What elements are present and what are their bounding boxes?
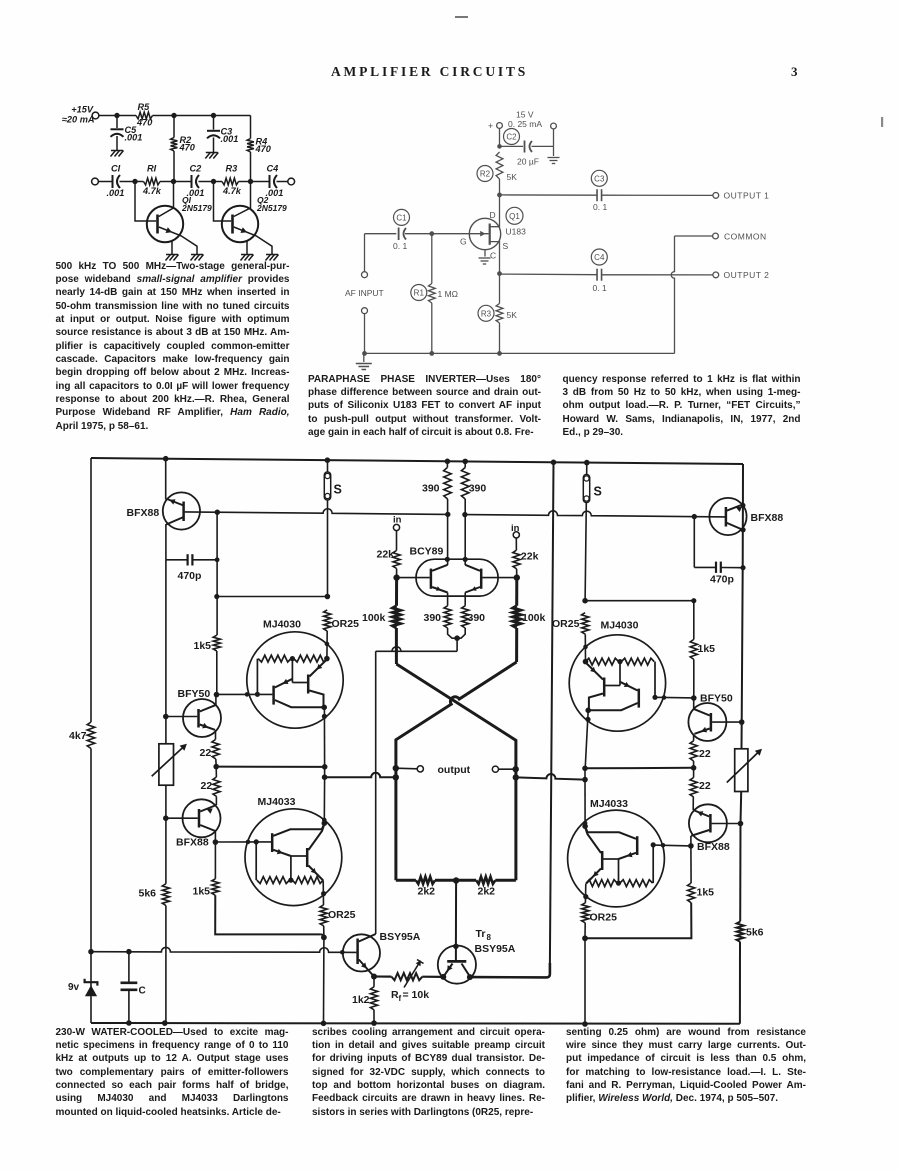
wire BFY50-right collector/emitter column bbox=[693, 698, 695, 741]
svg-text:Q1: Q1 bbox=[509, 212, 520, 221]
wire output-left feed row bbox=[325, 773, 396, 777]
svg-text:20 µF: 20 µF bbox=[517, 157, 539, 167]
resistor 22k right bbox=[513, 550, 539, 577]
darlington MJ4030 upper-left bbox=[247, 619, 343, 729]
ground under C5 bbox=[111, 151, 124, 157]
wire BFY50-right base lead bbox=[712, 719, 744, 725]
JFET Q1 U183 bbox=[432, 195, 526, 274]
svg-text:0. 1: 0. 1 bbox=[593, 202, 607, 212]
svg-text:22k: 22k bbox=[377, 549, 395, 561]
resistor 1k2 bbox=[352, 977, 378, 1024]
resistor 5k6 left bbox=[139, 884, 170, 906]
svg-text:in: in bbox=[511, 523, 520, 534]
capacitor C1 .001 bbox=[98, 164, 135, 199]
wire 22-junction row left bbox=[216, 766, 325, 768]
svg-text:f: f bbox=[399, 994, 402, 1003]
diode 9V zener bbox=[68, 979, 97, 997]
svg-text:9v: 9v bbox=[68, 982, 80, 993]
darlington MJ4030 upper-right bbox=[569, 620, 665, 732]
svg-text:2N5179: 2N5179 bbox=[256, 203, 287, 213]
fuse S left bbox=[324, 460, 342, 596]
wire feedback diagonal left-to-right (heavy) bbox=[396, 664, 519, 880]
wire right outer column bbox=[740, 464, 743, 1024]
svg-text:4k7: 4k7 bbox=[69, 730, 87, 742]
svg-text:22: 22 bbox=[699, 780, 711, 792]
wire MJ4033-right base lead bbox=[653, 843, 691, 848]
rheostat right bbox=[727, 749, 762, 792]
wire MJ4033-left base lead bbox=[215, 840, 272, 845]
wire 1k5-LR to 0R25 column bbox=[582, 903, 691, 941]
svg-text:COMMON: COMMON bbox=[724, 231, 767, 241]
ground under Q2 emitter bbox=[241, 255, 254, 261]
svg-text:4.7k: 4.7k bbox=[222, 186, 242, 196]
svg-text:5K: 5K bbox=[507, 310, 518, 320]
wire BFY50-left base lead bbox=[163, 714, 197, 720]
capacitor C filter bbox=[121, 952, 146, 1023]
wire 0R25-LL continues to bottom bus bbox=[323, 937, 325, 1023]
resistor 1k5 lower-left bbox=[193, 879, 220, 898]
node MJ4033-right base junction bbox=[688, 843, 694, 849]
svg-text:BCY89: BCY89 bbox=[410, 546, 444, 558]
transistor BFX88 lower-right bbox=[689, 797, 730, 853]
transistor BFX88 upper-left bbox=[127, 492, 200, 529]
resistor 22k left bbox=[377, 549, 401, 578]
svg-text:BFX88: BFX88 bbox=[127, 507, 160, 519]
wire feedback diagonal right-to-left (heavy) with hop bbox=[393, 662, 517, 880]
node right 22 junction bbox=[691, 765, 697, 771]
transistor Tr8 BSY95A bbox=[438, 928, 516, 984]
wire BFX88-LR base lead bbox=[712, 821, 744, 827]
svg-text:S: S bbox=[334, 483, 342, 497]
resistor 100k left (heavy) bbox=[362, 578, 400, 664]
resistor 0R25 upper-right bbox=[552, 598, 589, 664]
ground under C3 bbox=[205, 153, 218, 159]
svg-text:C4: C4 bbox=[594, 253, 605, 262]
svg-text:1k5: 1k5 bbox=[193, 886, 211, 898]
svg-text:R5: R5 bbox=[138, 102, 151, 112]
wire top supply rail bbox=[99, 113, 251, 118]
resistor 22 left upper bbox=[200, 740, 220, 767]
svg-text:.001: .001 bbox=[221, 134, 239, 144]
svg-text:MJ4033: MJ4033 bbox=[258, 796, 296, 808]
capacitor C2 20uF bbox=[500, 129, 554, 167]
svg-text:BFX88: BFX88 bbox=[697, 841, 730, 853]
svg-text:5K: 5K bbox=[507, 172, 518, 182]
svg-text:R1: R1 bbox=[414, 289, 425, 298]
svg-text:OR25: OR25 bbox=[590, 912, 618, 924]
capacitor C5 .001 bbox=[111, 116, 143, 151]
svg-text:.001: .001 bbox=[125, 133, 143, 143]
capacitor C1 0.1 bbox=[365, 209, 432, 250]
resistor 390 upper-left pair bbox=[422, 461, 451, 565]
svg-text:OR25: OR25 bbox=[552, 618, 580, 630]
wire Tr8 base column bbox=[453, 881, 459, 950]
svg-text:2N5179: 2N5179 bbox=[181, 203, 212, 213]
svg-text:+: + bbox=[488, 121, 493, 131]
wire left base rail segment bbox=[185, 509, 451, 517]
transistor BSY95A left bbox=[343, 931, 421, 977]
transistor BFY50 right bbox=[688, 693, 732, 742]
svg-text:4.7k: 4.7k bbox=[142, 186, 162, 196]
wire BSY95A base row bbox=[88, 947, 356, 954]
svg-text:OUTPUT 2: OUTPUT 2 bbox=[724, 270, 770, 280]
schematic 1: 500 kHz - 500 MHz two-stage wideband amplifier bbox=[881, 117, 883, 127]
transistor BFY50 left bbox=[178, 688, 222, 737]
node 15V supply terminals bbox=[488, 110, 556, 132]
svg-text:1k5: 1k5 bbox=[698, 643, 716, 655]
resistor 22 right lower bbox=[690, 768, 711, 797]
capacitor 470p right bbox=[694, 517, 745, 586]
resistor 22 right upper bbox=[690, 741, 711, 768]
svg-text:OUTPUT 1: OUTPUT 1 bbox=[724, 191, 770, 201]
transistor Q2 2N5179 bbox=[214, 182, 288, 255]
wire inner-right lower column to 1k5 bbox=[690, 846, 692, 883]
node MJ4033-left base junction bbox=[213, 839, 219, 845]
svg-text:1 MΩ: 1 MΩ bbox=[438, 289, 459, 299]
resistor 0R25 upper-left bbox=[324, 610, 359, 661]
svg-text:R3: R3 bbox=[481, 310, 492, 319]
capacitor C3 0.1 to output 1 bbox=[500, 170, 713, 212]
wire 0R25-LR continues to bottom bus bbox=[584, 938, 586, 1025]
wire supply drop bbox=[497, 128, 502, 148]
svg-text:22k: 22k bbox=[521, 551, 539, 563]
resistor 2k2 row (heavy) bbox=[396, 877, 516, 898]
node input terminal bbox=[92, 178, 99, 185]
node AF INPUT terminals bbox=[345, 234, 384, 354]
wire BCY89 tail column bbox=[375, 651, 377, 934]
svg-text:390: 390 bbox=[424, 612, 442, 624]
svg-text:390: 390 bbox=[422, 483, 440, 495]
svg-text:470: 470 bbox=[255, 144, 272, 154]
resistor R1 1 Mohm bbox=[411, 234, 458, 354]
wire MJ4030-left base lead bbox=[217, 692, 273, 697]
resistor R3 4.7k bbox=[211, 164, 251, 197]
svg-text:15 V: 15 V bbox=[516, 110, 534, 120]
fuse S right bbox=[583, 463, 602, 601]
svg-text:C1: C1 bbox=[396, 214, 407, 223]
capacitor C2 .001 bbox=[171, 164, 214, 199]
wire MJ4030-right top tie bbox=[585, 598, 696, 603]
resistor 390 lower-left of BCY89 bbox=[424, 606, 458, 638]
svg-text:U183: U183 bbox=[506, 227, 527, 237]
svg-text:C2: C2 bbox=[506, 133, 517, 142]
dual transistor BCY89 bbox=[397, 546, 517, 606]
capacitor 470p left bbox=[166, 554, 220, 582]
resistor 390 upper-right pair bbox=[461, 461, 486, 565]
wire right output column bbox=[582, 710, 588, 823]
ground under C2 bbox=[548, 158, 560, 164]
svg-text:CI: CI bbox=[111, 164, 121, 174]
wire long bias column to top bus bbox=[550, 462, 554, 963]
wire 22-junction row right bbox=[582, 766, 693, 772]
svg-text:BFY50: BFY50 bbox=[700, 693, 733, 705]
darlington MJ4033 lower-left bbox=[245, 796, 342, 906]
svg-text:MJ4030: MJ4030 bbox=[263, 619, 301, 631]
node COMMON terminal bbox=[671, 231, 766, 353]
svg-text:1k5: 1k5 bbox=[697, 887, 715, 899]
node B right input node bbox=[514, 574, 520, 580]
svg-text:OR25: OR25 bbox=[328, 909, 356, 921]
ground under Q2 shield bbox=[266, 255, 279, 261]
resistor R4 470 bbox=[247, 116, 272, 182]
node output terminals bbox=[396, 764, 516, 776]
svg-text:390: 390 bbox=[469, 483, 487, 495]
svg-text:G: G bbox=[460, 237, 467, 247]
wire BFY50-left collector/emitter column bbox=[215, 695, 217, 740]
svg-text:= 10k: = 10k bbox=[403, 989, 430, 1001]
rheostat Rf 10k bbox=[374, 960, 442, 1004]
svg-text:output: output bbox=[438, 764, 471, 776]
ground under Q1 shield bbox=[191, 255, 204, 261]
svg-text:Tr: Tr bbox=[476, 928, 486, 940]
resistor R1 4.7k bbox=[132, 164, 173, 197]
svg-text:22: 22 bbox=[201, 780, 213, 792]
svg-text:5k6: 5k6 bbox=[139, 888, 157, 900]
wire right base rail segment bbox=[462, 511, 725, 519]
svg-text:1k5: 1k5 bbox=[194, 640, 212, 652]
svg-text:MJ4030: MJ4030 bbox=[601, 620, 639, 632]
svg-text:S: S bbox=[594, 485, 602, 499]
svg-text:5k6: 5k6 bbox=[746, 927, 764, 939]
svg-text:C2: C2 bbox=[190, 164, 203, 174]
resistor R5 470 bbox=[136, 102, 153, 128]
node left 22 junction bbox=[213, 764, 219, 770]
node in terminal left bbox=[393, 515, 402, 551]
svg-text:in: in bbox=[393, 515, 402, 526]
node bias row junction bbox=[371, 974, 377, 980]
wire inner-left column bbox=[214, 512, 220, 697]
svg-text:AF INPUT: AF INPUT bbox=[345, 288, 384, 298]
svg-text:390: 390 bbox=[468, 612, 486, 624]
svg-text:22: 22 bbox=[200, 747, 212, 759]
svg-text:1k2: 1k2 bbox=[352, 994, 370, 1006]
ground at FET case bbox=[479, 258, 491, 264]
wire left output column bbox=[322, 707, 328, 823]
wire BFX88-LL base lead bbox=[166, 817, 198, 819]
svg-text:100k: 100k bbox=[362, 612, 386, 624]
resistor 0R25 lower-left bbox=[320, 881, 356, 938]
svg-text:8: 8 bbox=[487, 933, 492, 942]
wire top supply bus bbox=[91, 456, 743, 466]
wire MJ4030-left top tie bbox=[217, 594, 330, 600]
svg-text:2k2: 2k2 bbox=[418, 886, 436, 898]
svg-text:470p: 470p bbox=[178, 570, 202, 582]
resistor 22 left lower bbox=[201, 767, 221, 797]
wire 1k5-LL to 0R25 column bbox=[215, 895, 327, 940]
svg-text:470: 470 bbox=[136, 118, 153, 128]
svg-text:RI: RI bbox=[147, 164, 157, 174]
rheostat left bbox=[152, 744, 187, 786]
ground under Q1 emitter bbox=[166, 255, 179, 261]
svg-text:C: C bbox=[490, 251, 496, 261]
node drain junction bbox=[497, 193, 502, 198]
resistor R3 5K bbox=[478, 274, 517, 354]
svg-text:470: 470 bbox=[179, 143, 196, 153]
svg-text:BFX88: BFX88 bbox=[176, 837, 209, 849]
wire MJ4030-right base lead bbox=[655, 695, 697, 701]
darlington MJ4033 lower-right bbox=[568, 798, 665, 907]
transistor Q1 2N5179 bbox=[135, 182, 212, 255]
svg-text:0. 1: 0. 1 bbox=[393, 241, 407, 251]
node source junction bbox=[497, 271, 502, 276]
svg-text:S: S bbox=[503, 241, 509, 251]
resistor 4k7 bbox=[69, 722, 95, 749]
svg-text:2k2: 2k2 bbox=[478, 886, 496, 898]
svg-text:≈20 mA: ≈20 mA bbox=[62, 115, 95, 125]
wire bottom common rail bbox=[362, 351, 674, 362]
svg-text:MJ4033: MJ4033 bbox=[590, 798, 628, 810]
capacitor C4 0.1 to output 2 bbox=[500, 249, 713, 293]
resistor 1k5 upper-right bbox=[690, 601, 715, 698]
svg-text:C4: C4 bbox=[267, 164, 279, 174]
wire left outer column with 4k7 and 9V zener bbox=[90, 458, 92, 1023]
resistor R2 470 bbox=[171, 116, 196, 182]
transistor BFX88 lower-left bbox=[176, 797, 221, 849]
node +15V supply terminal bbox=[62, 105, 99, 125]
resistor R2 5K bbox=[477, 152, 517, 195]
node output terminal bbox=[288, 178, 295, 185]
node gate junction bbox=[429, 231, 434, 236]
transistor BFX88 upper-right bbox=[709, 498, 783, 535]
svg-text:0. 25 mA: 0. 25 mA bbox=[508, 119, 542, 129]
svg-text:100k: 100k bbox=[522, 612, 546, 624]
svg-text:R2: R2 bbox=[480, 170, 491, 179]
svg-text:C3: C3 bbox=[594, 175, 605, 184]
wire bottom supply bus bbox=[91, 1020, 740, 1027]
wire inner-left lower column to 1k5 bbox=[214, 842, 216, 879]
svg-text:BSY95A: BSY95A bbox=[380, 931, 421, 943]
resistor 100k right (heavy) bbox=[513, 578, 546, 662]
wire Tr8 collector to bias vertical (heavy) bbox=[470, 963, 550, 977]
svg-text:.001: .001 bbox=[107, 188, 125, 198]
svg-text:BFX88: BFX88 bbox=[751, 512, 784, 524]
wire BFX88-UL emitter to bus / collector down bbox=[165, 459, 167, 560]
capacitor C3 .001 bbox=[207, 116, 238, 153]
svg-text:22: 22 bbox=[699, 748, 711, 760]
capacitor C4 .001 bbox=[248, 164, 288, 199]
node A left input node bbox=[393, 574, 399, 580]
node OUTPUT 1 terminal bbox=[713, 191, 769, 201]
resistor 1k5 upper-left bbox=[194, 635, 221, 652]
svg-text:R3: R3 bbox=[226, 164, 238, 174]
svg-text:D: D bbox=[490, 210, 496, 220]
resistor 5k6 right bbox=[737, 922, 764, 942]
resistor 1k5 lower-right bbox=[688, 883, 715, 903]
svg-text:+15V: +15V bbox=[71, 105, 94, 115]
wire output-right feed row bbox=[516, 774, 585, 780]
svg-text:BSY95A: BSY95A bbox=[475, 943, 516, 955]
wire BCY89 tail lead bbox=[376, 635, 460, 651]
svg-text:C: C bbox=[139, 986, 146, 997]
svg-text:0. 1: 0. 1 bbox=[593, 283, 607, 293]
wire mid-left column bbox=[163, 560, 169, 1023]
node OUTPUT 2 terminal bbox=[713, 270, 769, 280]
svg-text:BFY50: BFY50 bbox=[178, 688, 211, 700]
svg-text:470p: 470p bbox=[710, 574, 734, 586]
resistor 0R25 lower-right bbox=[582, 884, 617, 939]
ground at input rail bbox=[356, 364, 372, 370]
resistor 390 lower-right of BCY89 bbox=[457, 606, 485, 638]
svg-text:OR25: OR25 bbox=[332, 618, 360, 630]
node in terminal right bbox=[511, 523, 520, 550]
